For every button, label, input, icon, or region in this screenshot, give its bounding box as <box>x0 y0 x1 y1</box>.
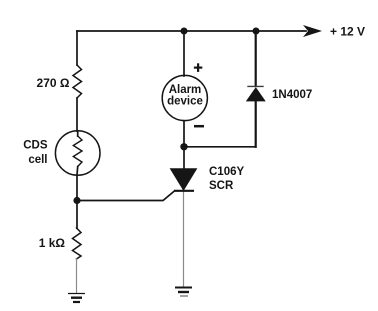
svg-text:1 kΩ: 1 kΩ <box>39 236 66 250</box>
svg-text:1N4007: 1N4007 <box>272 89 312 101</box>
svg-text:Alarm: Alarm <box>169 84 202 96</box>
svg-text:CDS: CDS <box>23 140 48 152</box>
svg-text:270 Ω: 270 Ω <box>37 76 70 90</box>
svg-text:C106Y: C106Y <box>209 166 244 178</box>
svg-text:+ 12 V: + 12 V <box>330 25 365 39</box>
svg-text:cell: cell <box>28 154 47 166</box>
svg-text:SCR: SCR <box>209 180 234 192</box>
svg-text:device: device <box>167 96 203 108</box>
